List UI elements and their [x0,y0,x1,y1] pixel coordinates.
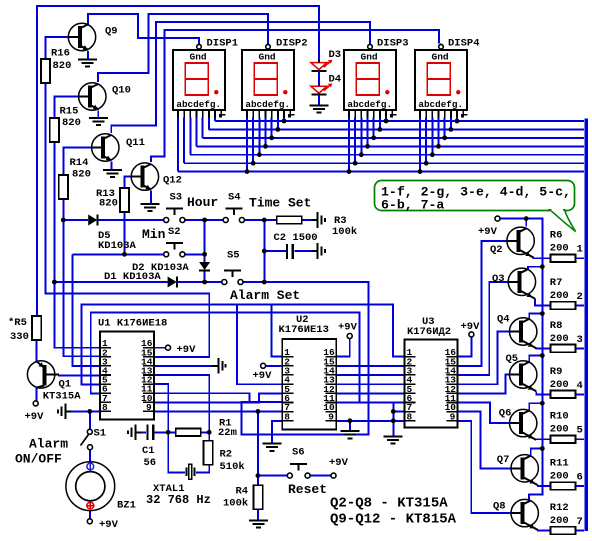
wire +9V circle to U2 pin16 [336,338,349,356]
wire Hour row S3 to S4 [185,219,224,221]
svg-text:100k: 100k [223,498,248,510]
display DISP4 [415,44,468,118]
svg-text:7: 7 [577,516,583,528]
wire segment bus e [203,137,584,139]
svg-text:Q10: Q10 [112,85,131,97]
label D1 [104,271,161,283]
label R10 [550,411,583,437]
wire R2 top [208,432,210,440]
switch S3 [164,209,185,223]
label U3 [407,316,451,338]
svg-text:+9V: +9V [478,226,498,238]
wire DISP4 pin d drop [438,118,440,147]
op-amp U1 K176IE18 box [100,332,154,420]
label DISP3 [377,38,409,50]
diode D5 [88,215,98,226]
resistor R3 [277,216,302,224]
wire crystal to R2 bottom [196,465,209,472]
resistor R1 [176,429,201,437]
wire U2 pin13 to U3 pin4 [336,383,404,385]
wire D4 to ground [318,95,320,106]
label Q12 [163,175,182,187]
wire output bus vertical [584,119,588,531]
label Hour [187,195,218,210]
svg-text:820: 820 [62,117,81,129]
wire +9V rail right column [500,219,542,501]
svg-text:820: 820 [72,169,91,181]
svg-text:abcdefg.: abcdefg. [347,99,392,110]
ground under D4 [309,106,328,113]
wire D2 cathode to Alarm row [204,271,206,282]
wire DISP1 pin a drop [177,118,179,172]
svg-text:R4: R4 [236,486,249,498]
svg-text:820: 820 [53,60,72,72]
power +9V circle U3 pin16 [461,321,481,337]
svg-text:R9: R9 [550,366,563,378]
label D5 [98,230,137,252]
label Q3 [492,273,505,285]
svg-text:R7: R7 [550,277,563,289]
wire DISP1 pin d drop [196,118,198,147]
transistor Q11 [92,134,119,161]
wire C2 to +9V tap [295,250,312,252]
wire Alarm row left [54,281,167,283]
capacitor C1 [148,425,154,440]
transistor Q3 [508,268,535,299]
svg-text:Q3: Q3 [492,273,505,285]
svg-text:U1 K176ИЕ18: U1 K176ИЕ18 [98,318,167,330]
wire DISP1 pin g drop [214,118,216,122]
transistor Q2 [507,227,534,258]
node U1pin9-U2pin7 [256,409,261,414]
power +9V circle BZ1 [87,519,118,531]
node S3-S4 [202,218,207,223]
svg-text:Reset: Reset [288,482,327,497]
wire DISP3 pin g drop [385,118,387,122]
wire R14 top to Q11 base [63,148,91,176]
wire DISP4 pin b drop [425,118,427,164]
node DISP2 pin g junction [282,119,287,124]
label C2 [274,232,318,244]
wire top +9V rail from Q1 emitter to D3 [37,6,319,316]
label U1 [98,318,167,330]
resistor R9 [551,391,576,399]
svg-text:9: 9 [328,411,334,422]
wire segment bus b [184,162,584,164]
wire U3 pin12 to Q5 base [458,375,510,394]
wire segment bus c [190,154,584,156]
resistor R2 [204,441,213,465]
svg-text:Gnd: Gnd [432,52,449,63]
svg-text:Q9-Q12 - KT815A: Q9-Q12 - KT815A [330,512,457,528]
wire Q4 collector to +9V rail [529,314,542,319]
wire U2 pin7 down to reset row [257,411,259,475]
node U3 pin8 gnd [391,418,396,423]
switch S6 [287,464,310,478]
svg-text:ON/OFF: ON/OFF [15,452,62,467]
wire DISP4 pin f drop [450,118,452,130]
power tap U1 pin8 [58,404,72,420]
wire Q2 collector up to rail [525,219,527,227]
svg-text:R11: R11 [550,458,569,470]
wire Q12 emitter to ground [150,191,152,204]
wire DISP2 pin a drop [246,118,248,172]
node DISP4 pin d junction [436,144,441,149]
svg-text:6: 6 [577,472,583,484]
node U2pin9 gnd [348,418,353,423]
label R7 [550,277,583,303]
node DISP2 pin b junction [251,161,256,166]
buzzer BZ1 [66,462,115,511]
wire segment bus d [196,145,584,147]
label S3 [170,192,183,204]
transistor Q1 [27,361,58,388]
svg-text:Q6: Q6 [499,408,512,420]
svg-text:100k: 100k [332,226,357,238]
label R1 [218,418,237,440]
node DISP3 pin c junction [359,152,364,157]
ground under Q11 [103,170,122,177]
wire node B U1 pin6 to U3 pin6 [91,312,405,402]
svg-text:3: 3 [577,334,583,346]
svg-text:Hour: Hour [187,195,218,210]
wire C2 row [264,250,286,252]
wire R15 bottom to U1 pin1 [54,142,100,348]
label S6 [292,447,305,459]
resistor R10 [551,435,576,443]
wire Min row down to U1 pin3 [73,254,100,365]
svg-text:Q2-Q8 - KT315A: Q2-Q8 - KT315A [330,496,448,512]
node C2 [262,249,267,254]
wire Q11 emitter to ground [110,162,112,171]
wire Q3 emitter to R7 [535,299,551,306]
wire Q7 collector to +9V rail [531,449,543,456]
diode D2 [199,262,210,271]
label Time Set [249,196,311,211]
wire DISP4 pin a drop [419,118,421,172]
wire Q11 collector to DISP3 Gnd [111,22,370,133]
wire branch to U2 pin4 [237,304,282,384]
wire DISP3 pin a drop [348,118,350,172]
label C1 [142,445,156,469]
svg-text:+9V: +9V [461,321,481,333]
svg-text:Gnd: Gnd [190,52,207,63]
resistor R15 [50,118,59,142]
power tap C1 [128,425,142,441]
wire DISP1 pin e drop [202,118,204,138]
svg-text:510k: 510k [220,461,245,473]
label Q5 [506,353,519,365]
resistor R4 [254,485,263,509]
node DISP3 pin e junction [371,135,376,140]
label Q2 [490,244,503,256]
ground under Q10 [89,118,108,125]
diode D1 [168,277,178,288]
wire Q1 base to U1 pin4 [58,374,100,376]
transistor Q4 [510,318,537,349]
wire Q4 emitter to R8 [536,347,551,349]
label D3 [329,49,342,61]
wire DISP1 pin f drop [208,118,210,130]
wire R4 bottom to ground [257,510,259,521]
wire Q8 emitter to R12 [538,529,551,532]
node DISP2 pin d junction [263,144,268,149]
wire Q9 emitter to ground [87,51,89,60]
wire D3-D4 [318,71,320,86]
wire Alarm row S5 to U2 pin6 around bottom [241,282,368,434]
svg-text:DISP3: DISP3 [377,38,409,50]
label Q1 [43,379,82,403]
transistor Q5 [510,361,537,392]
node U3 pin7 gnd [391,409,396,414]
resistor R14 [59,175,68,199]
label R16 [51,48,71,73]
svg-text:32 768 Hz: 32 768 Hz [146,493,211,507]
wire DISP1 pin b drop [183,118,185,164]
svg-text:Gnd: Gnd [259,52,276,63]
label DISP1 [207,38,239,50]
transistor Q7 [511,455,538,486]
wire U3 pin7 stub [393,410,404,412]
power +9V circle S6 [329,457,349,478]
wire DISP3 pin f drop [379,118,381,130]
svg-text:200: 200 [550,333,569,345]
label U2 [279,314,329,336]
switch S1 [81,429,93,449]
wire set node column [263,220,265,282]
svg-text:KT315A: KT315A [43,391,82,403]
display DISP1 [173,44,226,118]
svg-text:Alarm: Alarm [29,437,68,452]
svg-text:DISP2: DISP2 [276,38,308,50]
wire Hour row D5 to S3 [98,219,164,221]
display DISP3 [344,44,397,118]
svg-text:Q2: Q2 [490,244,503,256]
node DISP3 pin d junction [365,144,370,149]
svg-text:8: 8 [407,411,413,422]
wire U3 pin9 to Q8 base [458,421,511,513]
wire R13 bottom to Min row [124,212,126,254]
node Hour row start [61,218,66,223]
wire reset node to R4 [257,476,259,486]
wire Q7 emitter to R11 [538,484,551,487]
svg-text:8: 8 [284,411,290,422]
wire R16 top to Q9 base [46,37,69,59]
wire Q9 collector to DISP1 Gnd [88,14,199,44]
wire R7 to output bus 2 [575,305,584,307]
wire U2 pin8 to ground [272,421,282,444]
svg-text:200: 200 [550,515,569,527]
node C1-R1-U1pin12 [166,430,171,435]
wire Q3 collector to +9V rail [528,267,542,270]
wire U1 pin9 to U2 pin7 [154,410,282,412]
label DISP2 [276,38,308,50]
svg-text:200: 200 [550,243,569,255]
transistor Q9 [68,23,95,50]
label S1 [94,428,107,440]
node DISP3 pin f junction [377,127,382,132]
resistor R12 [551,527,576,535]
switch S2 [164,243,185,257]
svg-text:200: 200 [550,290,569,302]
wire Min row S2 to D2 node [185,253,205,255]
svg-text:R15: R15 [60,106,79,118]
svg-text:KD103A: KD103A [98,240,137,252]
ground under U2 pin8 [263,444,282,451]
svg-text:330: 330 [10,331,29,343]
wire node column S3/S4 down through D2 [204,220,206,262]
svg-text:K176ИД2: K176ИД2 [407,326,451,338]
svg-text:+9V: +9V [253,370,273,382]
svg-text:Q9: Q9 [105,26,118,38]
svg-text:DISP1: DISP1 [207,38,239,50]
power +9V circle U2 pin2 [253,363,273,382]
op-amp U2 K176IE13 box [282,339,336,429]
transistor Q6 [510,409,537,440]
wire DISP4 pin c drop [431,118,433,155]
node DISP4 pin f junction [448,127,453,132]
wire R9 to output bus 4 [575,393,584,395]
resistor R6 [551,254,576,262]
ground under Q9 [78,60,97,67]
label R3 [332,215,357,238]
resistor R16 [41,59,50,83]
wire R14 bottom to U1 pin2 [63,199,100,356]
wire Q10 collector to DISP2 Gnd [98,14,268,82]
wire DISP2 pin b drop [252,118,254,164]
node DISP3 pin a junction [347,169,352,174]
svg-text:Time Set: Time Set [249,196,311,211]
svg-text:S6: S6 [292,447,305,459]
node D1-D2-S5 [202,280,207,285]
label BZ1 [117,500,136,512]
node S1 tap [87,409,92,414]
transistor Q12 [131,163,158,190]
node DISP3 pin g junction [384,119,389,124]
svg-text:abcdefg.: abcdefg. [418,99,463,110]
node Q7 collector rail [540,446,545,451]
svg-text:R6: R6 [550,230,563,242]
ground under U2 pin9 [340,431,359,438]
svg-text:S5: S5 [227,250,240,262]
callout bubble [375,181,576,232]
wire DISP3 pin c drop [360,118,362,155]
svg-text:9: 9 [450,411,456,422]
wire crystal node down [168,432,185,472]
wire U1 pin14 to +9V tap [154,365,213,367]
node Q3 collector rail [540,264,545,269]
label Q8 [493,501,506,513]
wire U3 pin14 to Q3 base [458,282,509,375]
wire segment bus g [215,120,584,122]
label R11 [550,458,583,484]
svg-text:56: 56 [144,457,157,469]
label DISP4 [448,38,480,50]
svg-text:200: 200 [550,471,569,483]
svg-text:Alarm Set: Alarm Set [230,288,300,303]
wire Q1 collector to +9V circle [36,388,38,401]
wire gnd drop mid [349,421,351,431]
resistor R7 [551,302,576,310]
node DISP2 pin c junction [257,152,262,157]
wire Hour row S4 to R3 [244,219,276,221]
wire segment bus a [178,171,584,173]
svg-text:Min: Min [142,227,166,242]
power +9V circle U1 pin16 [166,344,197,356]
wire DISP2 pin c drop [258,118,260,155]
svg-text:9: 9 [146,402,152,413]
wire R8 to output bus 3 [575,347,584,349]
svg-text:K176ИЕ13: K176ИЕ13 [279,324,329,336]
svg-text:200: 200 [550,424,569,436]
wire R16 bottom to U1 pin15 [46,83,210,357]
svg-text:6-b, 7-a: 6-b, 7-a [381,198,444,213]
label Min [142,227,166,242]
ground under R4 [249,520,268,527]
svg-text:2: 2 [577,291,583,303]
wire U2 pin11 stub [336,401,359,403]
node Q2 collector rail [524,216,529,221]
svg-text:R16: R16 [51,48,70,60]
label R6 [550,230,583,256]
node DISP2 pin a junction [245,169,250,174]
wire R5 to Q1 emitter [36,340,38,362]
wire Q12 collector to DISP4 Gnd [151,30,439,162]
svg-text:+9V: +9V [338,322,358,334]
transistor Q10 [79,83,106,110]
svg-text:+9V: +9V [25,411,45,423]
power +9V circle right column [478,216,500,238]
svg-text:+9V: +9V [177,344,197,356]
wire R11 to output bus 6 [575,485,584,487]
svg-text:820: 820 [99,198,118,210]
svg-text:Q5: Q5 [506,353,519,365]
svg-text:DISP4: DISP4 [448,38,480,50]
power tap for C2 [311,243,325,259]
capacitor C2 [287,244,293,259]
node DISP2 pin f junction [275,127,280,132]
wire U3 pin11 to Q6 base [458,402,510,423]
label Q10 [112,85,131,97]
resistor R11 [551,482,576,490]
label Q6 [499,408,512,420]
wire S1 to pin8 row [89,411,91,429]
wire R6 to output bus 1 [575,257,584,259]
wire U1 pin13 to R1 right [154,375,209,432]
svg-text:R10: R10 [550,411,569,423]
ground under U3 [384,436,403,443]
label R5 [8,317,29,343]
label Q4 [497,314,510,326]
svg-text:D3: D3 [329,49,342,61]
svg-text:R2: R2 [220,449,233,461]
label R2 [220,449,245,474]
wire R1 right lead [201,431,210,433]
wire reset row to S6 [258,475,288,477]
switch S5 [222,271,243,285]
node Q6 collector rail [540,401,545,406]
label Q11 [126,137,145,149]
wire S6 to +9V circle [310,475,331,477]
svg-text:200: 200 [550,379,569,391]
wire U2 pin12 to U3 pin5 [336,392,404,394]
wire R15 top to Q10 base [54,97,78,119]
node DISP4 pin a junction [418,169,423,174]
ground under Q12 [141,204,160,211]
label R15 [60,106,81,130]
label R13 [96,188,118,210]
wire DISP4 pin g drop [456,118,458,122]
